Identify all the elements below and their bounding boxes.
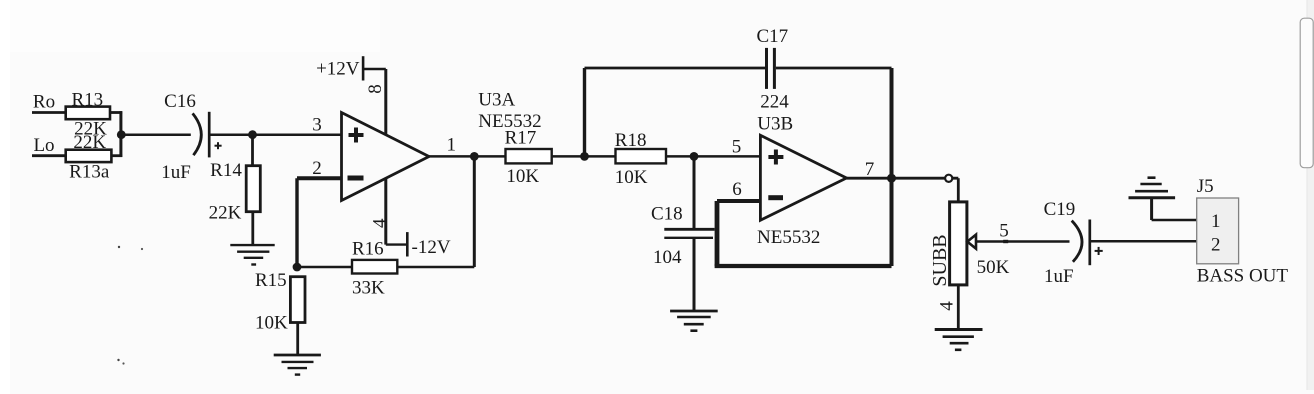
svg-text:R15: R15 — [255, 270, 287, 291]
svg-text:SUBB: SUBB — [929, 234, 951, 286]
wire node A vertical up — [583, 68, 586, 156]
svg-text:R13: R13 — [71, 89, 103, 110]
right scrollbar thumb — [1300, 18, 1313, 168]
op-amp U3B — [760, 135, 846, 220]
resistor R16 — [352, 239, 397, 299]
junction input node — [117, 130, 126, 139]
svg-text:C19: C19 — [1044, 199, 1076, 220]
svg-text:224: 224 — [760, 92, 789, 113]
wire right feedback vertical — [890, 68, 894, 266]
wire U3A output — [429, 155, 506, 158]
resistor R13a — [66, 132, 112, 182]
pin 5 label — [732, 137, 742, 158]
wire R15 bottom lead — [296, 323, 299, 356]
svg-text:C18: C18 — [651, 204, 683, 225]
wire bus vertical — [119, 111, 122, 157]
wire C19 to J5 pin2 — [1091, 240, 1197, 243]
svg-text:10K: 10K — [506, 166, 539, 187]
ground earth J5 — [1129, 178, 1176, 198]
capacitor C17 — [757, 26, 790, 113]
svg-text:5: 5 — [999, 221, 1009, 242]
label U3A — [478, 89, 515, 110]
wire top feedback right — [776, 67, 892, 70]
svg-text:R14: R14 — [210, 160, 242, 181]
wire R16 to feedback vertical — [397, 266, 474, 269]
resistor R13 — [66, 89, 110, 139]
pin 7 label — [865, 159, 875, 180]
capacitor C16 — [161, 91, 221, 183]
pin 6 label — [732, 179, 742, 200]
svg-text:R18: R18 — [615, 130, 647, 151]
wire pin2 vertical to R15 node — [295, 178, 298, 267]
svg-text:4: 4 — [937, 301, 958, 311]
resistor R15 — [255, 270, 305, 334]
junction U3B output — [887, 174, 896, 183]
wire Ro input — [32, 111, 66, 114]
svg-text:33K: 33K — [352, 278, 385, 299]
terminal circle pot top — [945, 175, 952, 182]
svg-text:C17: C17 — [757, 26, 789, 47]
capacitor C19 — [1044, 199, 1103, 287]
wire tick at pin 5 — [1003, 240, 1008, 243]
resistor R17 — [505, 127, 552, 187]
resistor R18 — [615, 130, 666, 188]
wire earth to J5 pin1 — [1152, 219, 1197, 222]
junction node A — [580, 152, 589, 161]
ground below R15 — [274, 355, 321, 375]
resistor R14 — [209, 160, 261, 223]
svg-text:104: 104 — [653, 247, 682, 268]
svg-text:NE5532: NE5532 — [757, 227, 820, 248]
wire R14 top lead — [251, 135, 254, 166]
faint left edge white strip — [0, 0, 10, 394]
label NE5532 U3A — [478, 111, 541, 132]
svg-text:50K: 50K — [977, 257, 1010, 278]
pin 5 pot label — [999, 221, 1009, 242]
wire C18 bottom lead — [693, 238, 696, 311]
svg-text:1uF: 1uF — [161, 162, 191, 183]
svg-text:R17: R17 — [505, 127, 537, 148]
speck artifacts — [118, 246, 120, 248]
svg-text:C16: C16 — [164, 91, 196, 112]
wire pin8 vertical — [384, 69, 387, 135]
node pin2 label — [312, 158, 322, 179]
ground below C18 — [670, 311, 718, 331]
svg-text:10K: 10K — [255, 313, 288, 334]
ground below pot — [935, 330, 983, 350]
wire node to R16 — [297, 266, 352, 269]
svg-text:2: 2 — [1211, 235, 1221, 256]
svg-text:1: 1 — [1211, 211, 1221, 232]
svg-text:5: 5 — [732, 137, 742, 158]
wire Lo input — [32, 154, 66, 157]
svg-text:4: 4 — [369, 218, 390, 228]
junction R14 tap — [248, 130, 257, 139]
svg-text:22K: 22K — [209, 202, 242, 223]
wire pot top lead — [957, 178, 960, 202]
connector J5 — [1197, 176, 1239, 264]
wire R13a to bus — [111, 154, 122, 157]
pin 4 label — [369, 218, 390, 228]
pin 1 label — [447, 134, 457, 155]
wire R18 to pin5 — [666, 155, 760, 158]
svg-text:U3B: U3B — [757, 114, 793, 135]
label U3B — [757, 114, 793, 135]
svg-text:1uF: 1uF — [1044, 266, 1074, 287]
wire U3B output — [847, 177, 959, 180]
junction output pin1 — [470, 152, 479, 161]
pin 4 pot label — [937, 301, 958, 311]
wire C16 to pin3 — [210, 133, 341, 136]
junction C18 tap — [690, 152, 699, 161]
pin 8 label — [365, 84, 386, 94]
svg-text:22K: 22K — [73, 132, 106, 153]
right scrollbar track — [1307, 0, 1314, 390]
wire R14 bottom lead — [251, 212, 254, 245]
potentiometer SUBB — [929, 202, 1010, 287]
svg-text:J5: J5 — [1197, 176, 1214, 197]
svg-text:U3A: U3A — [478, 89, 515, 110]
wire C18 top lead — [693, 156, 696, 229]
op-amp U3A — [342, 113, 430, 201]
svg-text:2: 2 — [312, 158, 322, 179]
svg-text:3: 3 — [312, 115, 322, 136]
wire R13 to bus — [110, 111, 122, 114]
svg-text:+12V: +12V — [316, 59, 360, 80]
label BASS OUT — [1197, 266, 1289, 287]
wire pin4 vertical — [384, 178, 387, 245]
wire pot bottom lead — [957, 285, 960, 330]
svg-text:Lo: Lo — [33, 135, 54, 156]
wire pin6 — [717, 199, 760, 203]
wire R17 to R18 — [552, 155, 616, 158]
ground below R14 — [230, 245, 274, 264]
node pin3 label — [312, 115, 322, 136]
svg-text:R16: R16 — [352, 239, 384, 260]
wire top feedback left — [585, 67, 766, 70]
svg-text:6: 6 — [732, 179, 742, 200]
label NE5532 U3B — [757, 227, 820, 248]
wire wiper to C19 — [976, 240, 1070, 243]
wire feedback vertical up to output — [473, 156, 476, 267]
svg-text:-12V: -12V — [412, 237, 451, 258]
svg-text:8: 8 — [365, 84, 386, 94]
wire to C16 — [121, 133, 191, 136]
wire earth stub — [1150, 198, 1153, 220]
capacitor C18 — [651, 204, 715, 269]
svg-text:10K: 10K — [615, 167, 648, 188]
svg-text:BASS OUT: BASS OUT — [1197, 266, 1289, 287]
svg-text:R13a: R13a — [69, 162, 110, 183]
wire bottom feedback — [715, 264, 892, 268]
svg-text:Ro: Ro — [33, 92, 55, 113]
power -12V terminal — [386, 232, 451, 258]
wire pin6 vertical — [715, 201, 720, 266]
power +12V terminal — [316, 56, 386, 80]
node Lo — [33, 135, 54, 156]
node Ro — [33, 92, 55, 113]
wire pin2 — [297, 176, 342, 180]
junction R15 R16 node — [293, 263, 302, 272]
svg-text:1: 1 — [447, 134, 457, 155]
